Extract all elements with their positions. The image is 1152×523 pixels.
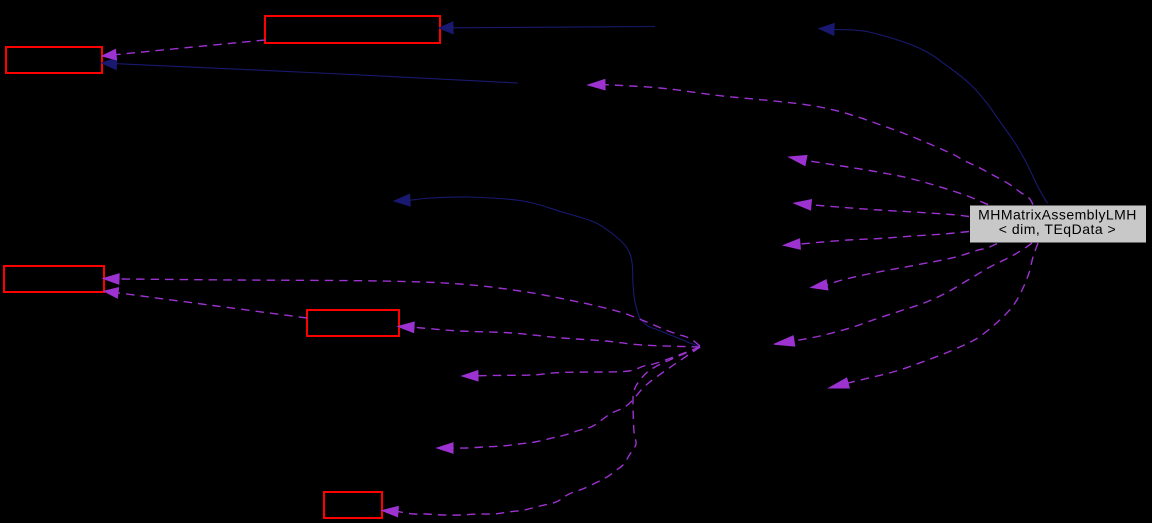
purple dashed edge: invisible central node C0 to node E: [398, 347, 700, 515]
purple dashed edge: node B to node A: [116, 40, 265, 55]
purple dashed edge: invisible central node C0 to node D: [414, 327, 700, 347]
node B (top red box): [265, 16, 440, 43]
purple dashed edge: MHMatrixAssemblyLMH to invisible node I5: [806, 161, 988, 205]
blue edge: invisible node I2 to node A (solid inheritance): [117, 64, 519, 83]
purple dashed edge: MHMatrixAssemblyLMH to invisible central node C0: [794, 243, 1032, 341]
svg-text:< dim, TEqData >: < dim, TEqData >: [999, 221, 1116, 237]
node MHMatrixAssemblyLMH (gray highlighted box): [970, 205, 1147, 243]
purple dashed edge: MHMatrixAssemblyLMH to invisible node I7: [800, 232, 969, 245]
purple dashed edge: invisible central node C0 to node C: [113, 279, 700, 346]
node D (middle red box): [307, 310, 399, 336]
purple dashed edge: MHMatrixAssemblyLMH to invisible node I2: [605, 85, 1033, 205]
purple dashed edge: node D to node C: [118, 293, 307, 318]
blue edge: invisible node IN1 to node B (solid inheritance): [453, 27, 655, 28]
blue edge: MHMatrixAssemblyLMH to invisible node IN1 (curved arc): [834, 29, 1048, 203]
node A (top-left red box): [6, 47, 102, 73]
purple dashed edge: MHMatrixAssemblyLMH to invisible node I8: [827, 244, 997, 285]
purple dashed edge: MHMatrixAssemblyLMH to invisible node I9: [848, 243, 1038, 383]
purple dashed edge: invisible central node C0 to invisible node I10: [478, 347, 700, 376]
node C (left-middle red box): [4, 266, 104, 292]
node E (bottom red box): [324, 492, 382, 518]
blue edge: invisible central node C0 to invisible node I4 (curved): [410, 197, 700, 347]
purple dashed edge: invisible central node C0 to invisible node I11: [453, 347, 700, 448]
purple dashed edge: MHMatrixAssemblyLMH to invisible node I6: [811, 205, 969, 217]
